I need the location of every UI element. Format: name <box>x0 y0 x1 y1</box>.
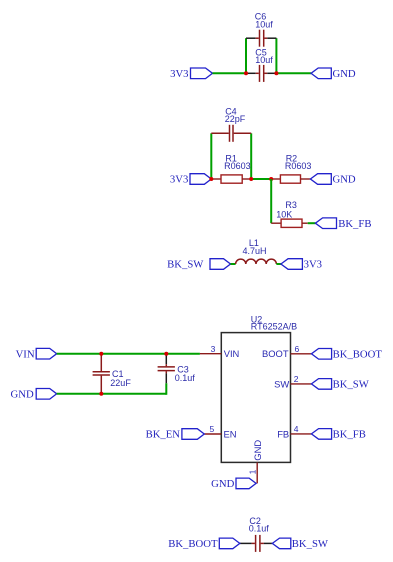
svg-text:0.1uf: 0.1uf <box>249 524 270 534</box>
svg-text:BK_SW: BK_SW <box>292 538 329 550</box>
port BK_BOOT <box>311 349 382 361</box>
port VIN <box>16 348 57 360</box>
junction <box>99 392 103 396</box>
port 3V3 (top section) <box>170 68 212 80</box>
svg-text:EN: EN <box>224 428 237 439</box>
junction <box>249 177 253 181</box>
svg-text:4: 4 <box>294 424 299 434</box>
op-amp U2 RT6252A/B body <box>221 314 297 462</box>
wire <box>276 72 311 74</box>
junction <box>164 352 168 356</box>
svg-text:GND: GND <box>333 68 356 80</box>
junction <box>269 177 273 181</box>
svg-text:SW: SW <box>274 378 289 389</box>
svg-text:R3: R3 <box>285 200 297 210</box>
junction <box>99 352 103 356</box>
capacitor C3 0.1uf <box>158 354 196 384</box>
svg-text:BK_SW: BK_SW <box>167 259 204 271</box>
svg-text:BK_BOOT: BK_BOOT <box>168 538 218 550</box>
wire <box>250 133 252 179</box>
port BK_BOOT (cap section) <box>168 538 240 550</box>
wire <box>308 222 316 224</box>
svg-text:10uf: 10uf <box>255 55 273 65</box>
pin 2 SW <box>274 374 311 389</box>
port BK_SW (inductor section) <box>167 259 230 271</box>
capacitor C6 10uf <box>246 11 276 46</box>
svg-text:GND: GND <box>11 388 34 400</box>
port BK_FB (divider section) <box>315 218 371 230</box>
svg-text:BK_FB: BK_FB <box>333 429 366 441</box>
port BK_FB (ic section) <box>311 429 365 441</box>
svg-text:1: 1 <box>248 469 258 474</box>
svg-text:5: 5 <box>209 424 214 434</box>
svg-text:BK_EN: BK_EN <box>146 429 181 441</box>
capacitor C2 0.1uf <box>240 516 272 552</box>
pin 1 GND <box>248 440 263 484</box>
svg-text:3: 3 <box>211 344 216 354</box>
svg-text:RT6252A/B: RT6252A/B <box>251 322 297 332</box>
inductor L1 4.7uH <box>236 238 277 264</box>
port BK_EN <box>146 429 205 441</box>
svg-text:VIN: VIN <box>224 348 240 359</box>
svg-text:3V3: 3V3 <box>304 259 322 271</box>
resistor R2 R0603 <box>271 153 311 183</box>
svg-text:22pF: 22pF <box>225 114 246 124</box>
svg-text:BOOT: BOOT <box>262 348 289 359</box>
port GND (input section) <box>11 388 57 400</box>
capacitor C1 22uF <box>93 354 132 394</box>
pin 6 BOOT <box>262 344 311 359</box>
svg-text:GND: GND <box>211 478 234 490</box>
port BK_SW (ic section) <box>311 379 369 391</box>
junction <box>209 177 213 181</box>
svg-text:6: 6 <box>295 344 300 354</box>
svg-text:0.1uf: 0.1uf <box>175 373 196 383</box>
wire <box>276 263 281 265</box>
svg-text:R0603: R0603 <box>224 161 251 171</box>
port GND (divider section) <box>310 174 356 186</box>
pin 3 VIN <box>200 344 239 359</box>
svg-text:VIN: VIN <box>16 348 35 360</box>
svg-text:10K: 10K <box>276 210 292 220</box>
wire <box>275 38 277 73</box>
wire <box>245 38 247 73</box>
svg-text:10uf: 10uf <box>255 20 273 30</box>
svg-text:GND: GND <box>333 174 356 186</box>
svg-text:GND: GND <box>252 440 263 461</box>
pin 5 EN <box>204 424 236 439</box>
wire <box>270 179 272 223</box>
svg-text:3V3: 3V3 <box>170 174 188 186</box>
wire <box>57 353 200 355</box>
svg-text:BK_BOOT: BK_BOOT <box>333 349 383 361</box>
resistor R1 R0603 <box>211 153 251 183</box>
junction <box>244 71 248 75</box>
wire <box>213 72 247 74</box>
capacitor C5 10uf <box>246 47 276 82</box>
port GND (top section) <box>311 68 356 80</box>
wire <box>210 133 212 179</box>
wire <box>165 383 167 395</box>
svg-text:22uF: 22uF <box>110 378 131 388</box>
wire <box>231 263 236 265</box>
svg-text:3V3: 3V3 <box>170 68 188 80</box>
port 3V3 (inductor section) <box>281 259 322 271</box>
port GND (ic bottom) <box>211 478 256 490</box>
resistor R3 10K <box>271 200 308 228</box>
svg-text:BK_FB: BK_FB <box>338 218 371 230</box>
wire <box>251 178 271 180</box>
junction <box>274 71 278 75</box>
svg-text:BK_SW: BK_SW <box>333 379 370 391</box>
port 3V3 (divider section) <box>170 174 211 186</box>
pin 4 FB <box>277 424 311 439</box>
svg-text:2: 2 <box>294 374 299 384</box>
svg-text:4.7uH: 4.7uH <box>243 246 267 256</box>
svg-text:R0603: R0603 <box>285 161 312 171</box>
wire <box>57 393 167 395</box>
capacitor C4 22pF <box>211 106 251 142</box>
port BK_SW (cap section) <box>272 538 329 550</box>
svg-text:FB: FB <box>277 428 289 439</box>
